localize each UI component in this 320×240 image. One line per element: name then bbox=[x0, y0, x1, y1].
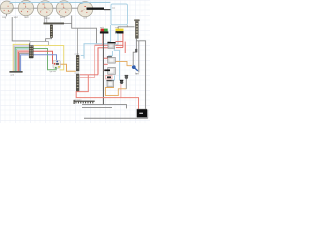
wire cyan headlight down and across to connector bbox=[84, 25, 111, 59]
wire gray link G4-G5 bbox=[72, 7, 78, 9]
wire gray G4 right to center column bbox=[72, 16, 97, 44]
fuse F2 (salmon box) bbox=[106, 76, 113, 79]
connector J6 upper bbox=[75, 53, 80, 71]
switch S2 bbox=[107, 56, 115, 63]
spark plug lead from G5 bbox=[87, 7, 105, 9]
wire gray from G1 stem bbox=[6, 14, 8, 16]
wire gray link G1-G2 bbox=[13, 7, 18, 9]
wire blue to ignition switch bbox=[34, 55, 58, 61]
wire red J7 to battery rail bbox=[80, 74, 98, 76]
main gray bus bbox=[102, 34, 104, 105]
wire gray harness bbox=[20, 53, 29, 71]
wire orange ignition to horn bbox=[116, 61, 132, 65]
wire blue horn lead bbox=[135, 68, 138, 71]
handlebar bar (thick gray) bbox=[44, 22, 65, 24]
wire gray fuse holder to horn bbox=[133, 39, 136, 66]
fuse element bbox=[135, 49, 137, 52]
harness ground bar bbox=[9, 71, 22, 73]
svg-text:lamp: lamp bbox=[45, 18, 51, 20]
wire gray from gauges down-left to harness connector bbox=[12, 17, 30, 41]
wire yellow harness bbox=[13, 44, 29, 71]
winker relay A (red/green) bbox=[100, 27, 109, 33]
connector J3 below bar bbox=[50, 25, 53, 38]
wire red bus to S3 bbox=[103, 69, 106, 71]
wire red harness bbox=[18, 52, 29, 71]
wire red elbow to regulator bbox=[98, 48, 108, 75]
wire gray bar to J4 drop bbox=[64, 22, 72, 24]
wire orange switch loop bbox=[105, 87, 126, 96]
wire gray J8 second bbox=[82, 107, 112, 109]
label box (white) bbox=[30, 42, 48, 46]
wire lavender harness bbox=[14, 46, 29, 71]
node compB terminal bbox=[116, 32, 117, 35]
switch S3 bbox=[104, 67, 115, 74]
horn button (gray ball) bbox=[125, 75, 129, 89]
gauge G2 bbox=[18, 0, 33, 15]
svg-text:tach: tach bbox=[24, 16, 29, 19]
wire pink from winker relay bbox=[101, 34, 103, 46]
wire gray right frame bbox=[137, 41, 146, 110]
fuse line to fuse holder bbox=[118, 26, 135, 28]
headlight shell (blue box) bbox=[111, 4, 128, 25]
wire pink harness bbox=[17, 50, 29, 71]
wire orange ignition to J7 bbox=[61, 64, 76, 71]
switch S4 bbox=[107, 80, 114, 87]
gauge G5 ignition coil bbox=[78, 2, 93, 17]
gauge G3 bbox=[37, 1, 53, 17]
wire cyan at S4 bbox=[112, 76, 115, 81]
wire cyan from coil B down bbox=[114, 34, 119, 81]
wire gray J8 to battery area bbox=[82, 105, 127, 109]
connector J7 lower bbox=[75, 73, 80, 92]
wire gray link G2-G3 bbox=[34, 7, 38, 9]
ground rail bottom bbox=[84, 117, 148, 119]
fuse holder ladder J5 bbox=[134, 19, 139, 38]
cyan elbow under regulator bbox=[108, 51, 112, 56]
wire gray stem G3 to bar bbox=[44, 16, 47, 22]
wire gray link G3-G4 bbox=[53, 7, 57, 9]
wire red bus to S2 bbox=[104, 57, 108, 59]
regulator U1 bbox=[107, 40, 115, 49]
harness connector J1 bbox=[29, 43, 34, 58]
wire gray battery right to ground rail bbox=[147, 110, 149, 119]
pilot lamp DS1 bbox=[120, 80, 123, 84]
wire gray bar end down to connector J4 bbox=[77, 28, 79, 55]
wire green to ignition switch bbox=[34, 49, 57, 70]
gauge G4 bbox=[56, 1, 72, 17]
wire red to ignition switch bbox=[34, 51, 55, 63]
wire red relay to regulator bbox=[95, 44, 108, 46]
wire yellow to ignition switch bbox=[34, 46, 64, 70]
wire red right of regulator bbox=[115, 44, 123, 46]
wire blue harness bbox=[21, 55, 29, 71]
wire green harness bbox=[15, 47, 29, 71]
wire gray J3 to harness bbox=[46, 38, 52, 43]
wire gray headlight box to fuse line bbox=[126, 25, 128, 27]
wire pink lamp down to red rail bbox=[120, 84, 122, 98]
wire cyan top bus bbox=[10, 1, 111, 3]
ignition switch S1 bbox=[53, 60, 60, 68]
svg-text:coil: coil bbox=[83, 18, 87, 20]
ignition coil B (yellow) bbox=[115, 27, 123, 33]
connector J8 horizontal bbox=[74, 98, 95, 104]
wire pink long vertical bbox=[80, 45, 95, 77]
svg-text:lamp: lamp bbox=[60, 17, 66, 19]
wire cyan tick at connector top bbox=[81, 55, 84, 58]
horn H1 (blue dot) bbox=[132, 65, 136, 69]
battery BT1 bbox=[137, 109, 147, 118]
wire teal harness bbox=[16, 49, 29, 71]
svg-text:ign sw: ign sw bbox=[50, 71, 57, 73]
wire gray gauge link bus bbox=[1, 7, 79, 9]
node G5 cyan tick bbox=[81, 2, 85, 3]
svg-text:t.sig: t.sig bbox=[2, 16, 7, 19]
gauge G1 bbox=[0, 1, 13, 14]
wire red bus stub bbox=[104, 63, 108, 65]
